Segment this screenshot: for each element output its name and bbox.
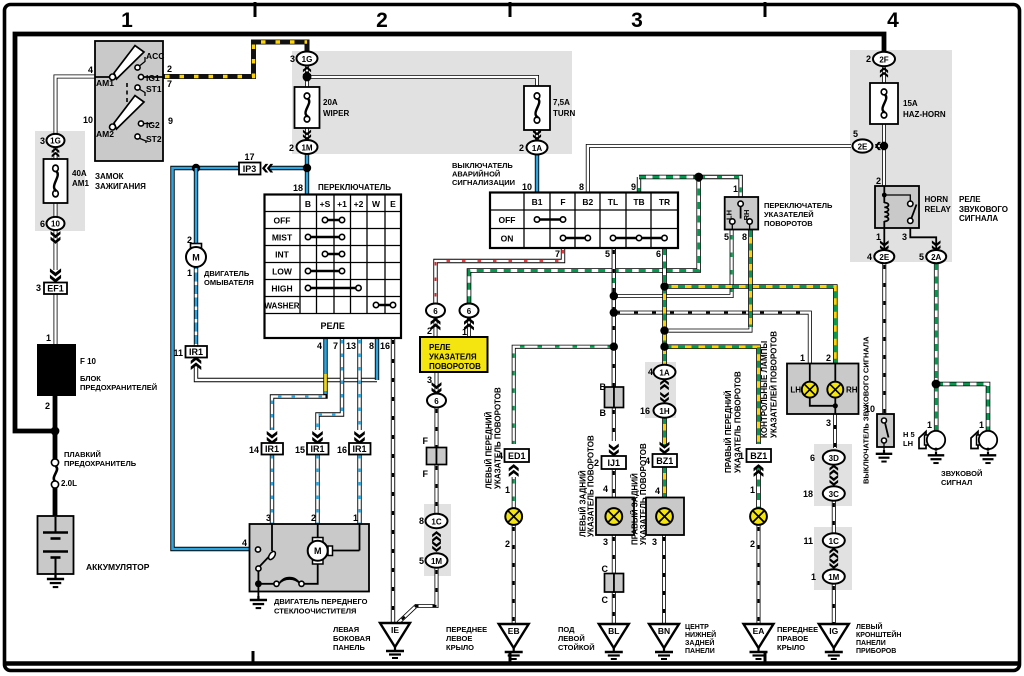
wire: flasher output rail green/white: across top, down and to flasher pin1 (639, 175, 699, 180)
connector 2F (873, 52, 895, 66)
svg-text:ЗВУКОВОЙ: ЗВУКОВОЙ (941, 469, 982, 478)
horn switch box (877, 414, 894, 447)
wire: rail to turn switch pin1 (699, 177, 741, 198)
svg-text:ЛЕВОЕ: ЛЕВОЕ (446, 634, 472, 643)
connector 3(1G) at AM1 fuse (47, 134, 65, 147)
svg-text:4: 4 (88, 65, 93, 75)
node: 1G junction (303, 73, 312, 82)
svg-text:ЗАЖИГАНИЯ: ЗАЖИГАНИЯ (95, 182, 146, 191)
node: washer branch junction (192, 164, 200, 172)
svg-text:4: 4 (603, 484, 608, 494)
flasher relay (yellow) (420, 337, 488, 372)
connector 6 ovals above flasher (426, 304, 445, 318)
svg-text:BZ1: BZ1 (750, 451, 767, 461)
svg-text:ЗАДНЕЙ: ЗАДНЕЙ (685, 638, 714, 647)
svg-text:2: 2 (167, 64, 172, 74)
connector 5(2E) horizontal (853, 139, 873, 152)
wire: TL branch to cluster pin 1, white w/ black dashes (614, 313, 810, 364)
svg-text:RH: RH (742, 210, 751, 221)
connector 6(3D) (823, 450, 845, 464)
svg-text:3: 3 (36, 283, 41, 293)
connector 11(1C) (823, 533, 845, 547)
wire: pin 8 upper blue (375, 338, 379, 380)
wire: RH branch to turn switch pin 8 (665, 325, 751, 331)
svg-text:ПРЕДОХРАНИТЕЛЬ: ПРЕДОХРАНИТЕЛЬ (64, 459, 137, 468)
svg-text:AM1: AM1 (96, 78, 114, 88)
wire: ignition AM1 pin4 to 1G fuse (56, 77, 96, 137)
svg-text:+1: +1 (337, 199, 347, 209)
svg-text:EF1: EF1 (47, 284, 64, 294)
svg-text:2: 2 (427, 326, 432, 336)
svg-text:IR1: IR1 (265, 444, 279, 454)
svg-text:1: 1 (353, 513, 358, 523)
svg-text:10: 10 (51, 220, 60, 229)
svg-text:IG2: IG2 (146, 120, 160, 130)
connector B-B (605, 387, 615, 408)
connector 16(1H) (654, 403, 676, 417)
svg-text:WIPER: WIPER (323, 109, 349, 118)
svg-text:4: 4 (648, 367, 653, 377)
svg-text:ПОД: ПОД (558, 625, 575, 634)
svg-text:7,5A: 7,5A (553, 98, 570, 107)
svg-text:3: 3 (427, 375, 432, 385)
svg-text:M: M (314, 546, 322, 556)
svg-text:ACC: ACC (146, 51, 164, 61)
svg-text:1: 1 (187, 268, 192, 278)
svg-text:2: 2 (289, 143, 294, 153)
svg-text:B: B (600, 408, 607, 418)
wire: 1G oval to 40A fuse / fuse to 6(10) (54, 146, 58, 345)
svg-text:8: 8 (579, 182, 584, 192)
svg-text:IJ1: IJ1 (608, 458, 621, 468)
svg-text:20A: 20A (323, 98, 338, 107)
svg-text:УКАЗАТЕЛЬ ПОВОРОТОВ: УКАЗАТЕЛЬ ПОВОРОТОВ (494, 387, 503, 489)
wire: 15 IR1 to wiper motor pin 2 (315, 453, 319, 525)
fuse 15A HAZ-HORN (870, 83, 898, 124)
node: flasher rail junction (694, 173, 703, 182)
connector 5(1M) left chain (426, 553, 448, 567)
svg-text:ПРАВЫЙ ПЕРЕДНИЙ: ПРАВЫЙ ПЕРЕДНИЙ (724, 390, 733, 473)
wire: 6(10) to EF1 to F10 (54, 229, 58, 270)
svg-text:1M: 1M (828, 573, 839, 582)
connector 3 EF1 (50, 268, 61, 282)
wire: 5(1M) to IE ground diagonal (398, 568, 437, 623)
svg-text:10: 10 (522, 182, 532, 192)
svg-text:16: 16 (640, 406, 650, 416)
svg-text:СИГНАЛИЗАЦИИ: СИГНАЛИЗАЦИИ (452, 178, 515, 187)
svg-text:6: 6 (810, 453, 815, 463)
connector F-F (427, 448, 437, 465)
svg-text:TURN: TURN (553, 109, 575, 118)
svg-text:W: W (372, 199, 381, 209)
wire: horn relay pin3 to 5(2A) (910, 224, 936, 251)
svg-text:БОКОВАЯ: БОКОВАЯ (333, 634, 371, 643)
svg-text:ЛЕВОЙ: ЛЕВОЙ (558, 634, 585, 643)
lamp: left front turn signal (505, 508, 522, 525)
svg-text:1: 1 (811, 572, 816, 582)
svg-text:ЦЕНТР: ЦЕНТР (685, 624, 709, 631)
wire: wiper fuse to 2(1M) (305, 128, 309, 142)
connector 1 BZ1 (747, 449, 772, 462)
connector 15 IR1 (312, 431, 323, 445)
wire: 14 IR1 to wiper motor pin 3 (270, 453, 274, 525)
nodes on TR (660, 282, 668, 290)
horn RH (971, 431, 997, 451)
svg-text:+S: +S (320, 199, 331, 209)
ground BN (649, 624, 679, 659)
node: horn branch (932, 380, 941, 389)
svg-text:9: 9 (168, 116, 173, 126)
wire: pin 7 (+1) to 15 IR1 (318, 338, 343, 430)
svg-text:IG: IG (829, 626, 838, 636)
svg-text:LH: LH (725, 210, 734, 220)
wire: 16 IR1 to wiper motor pin 1 (357, 453, 361, 525)
svg-text:СТЕКЛООЧИСТИТЕЛЯ: СТЕКЛООЧИСТИТЕЛЯ (274, 607, 356, 616)
ground EB (499, 624, 529, 659)
panel: connector 3D/3C band (814, 444, 852, 506)
svg-text:2: 2 (519, 143, 524, 153)
svg-text:СИГНАЛА: СИГНАЛА (959, 214, 998, 223)
wire: F10 to junction (53, 396, 58, 433)
connector 2(1M) under wiper fuse (303, 130, 311, 141)
wire: flasher pins to relay box (436, 317, 470, 338)
svg-text:OFF: OFF (499, 215, 516, 225)
svg-text:ОМЫВАТЕЛЯ: ОМЫВАТЕЛЯ (204, 278, 254, 287)
svg-text:8: 8 (742, 232, 747, 242)
svg-text:ЗВУКОВОГО: ЗВУКОВОГО (959, 205, 1008, 214)
wire: IP3 branch blue to washer and wiper motor (173, 168, 308, 549)
svg-text:2: 2 (866, 54, 871, 64)
wire: turn switch pin8 down, green/yellow (748, 230, 753, 327)
svg-text:10: 10 (83, 115, 93, 125)
svg-text:НИЖНЕЙ: НИЖНЕЙ (685, 630, 716, 639)
svg-text:ST2: ST2 (146, 134, 162, 144)
svg-text:1: 1 (979, 420, 984, 430)
svg-text:18: 18 (803, 489, 813, 499)
wire: washer motor to 11 IR1, blue w/ white dashes (194, 267, 198, 346)
ground EA (744, 624, 774, 659)
wire: 2E chevrons to junction on fuse wire (875, 144, 884, 148)
svg-text:15: 15 (295, 445, 305, 455)
svg-text:3: 3 (902, 232, 907, 242)
svg-text:18: 18 (293, 183, 303, 193)
svg-text:ПАНЕЛИ: ПАНЕЛИ (856, 640, 886, 647)
wire: TL branch to turn switch pin 5 (614, 230, 732, 296)
connector C-C (605, 574, 615, 593)
nodes on TL (610, 292, 618, 300)
svg-text:7: 7 (555, 249, 560, 259)
fusible link (51, 459, 58, 466)
svg-text:F: F (560, 197, 565, 207)
ground: battery (47, 575, 64, 587)
svg-text:7: 7 (167, 79, 172, 89)
svg-text:HORN: HORN (925, 195, 949, 204)
svg-text:H 5: H 5 (903, 430, 915, 439)
svg-text:ЗАМОК: ЗАМОК (95, 172, 124, 181)
svg-text:HAZ-HORN: HAZ-HORN (903, 110, 946, 119)
wire: 2(1M) to switch B pin18, blue (305, 152, 309, 195)
connector 3(1G) top of wiper fuse (297, 52, 318, 66)
svg-text:2: 2 (876, 176, 881, 186)
svg-text:EA: EA (753, 626, 765, 636)
svg-text:УКАЗАТЕЛЕЙ: УКАЗАТЕЛЕЙ (764, 210, 814, 219)
panel: ignition 40A AM1 fuse area (35, 131, 85, 231)
svg-text:КРОНШТЕЙН: КРОНШТЕЙН (856, 630, 901, 639)
cluster indicator lamps box (787, 364, 859, 415)
labels: wiper switch table pin 18, header, rows, РЕЛЕ, pins 4 7 13 8 16, IR1 pins 14 15 16 (265, 195, 402, 339)
svg-text:1G: 1G (302, 55, 313, 64)
wire: hazard TB pin9 up to flasher output rail (637, 177, 641, 193)
svg-text:4: 4 (317, 341, 322, 351)
svg-text:IR1: IR1 (352, 444, 366, 454)
svg-text:2E: 2E (858, 142, 868, 151)
svg-text:B2: B2 (582, 197, 593, 207)
svg-text:16: 16 (337, 445, 347, 455)
fuse block F10 (black box) (37, 344, 76, 396)
wire: 4(2E) to horn switch, white w/ black dashes (882, 263, 886, 414)
svg-text:2A: 2A (931, 253, 941, 262)
svg-text:1M: 1M (431, 557, 442, 566)
svg-text:C: C (602, 595, 609, 605)
svg-text:СИГНАЛ: СИГНАЛ (941, 478, 972, 487)
svg-text:ПОВОРОТОВ: ПОВОРОТОВ (764, 219, 813, 228)
ground: horn switch (876, 450, 893, 462)
svg-text:TL: TL (608, 197, 618, 207)
left rear lamp box (596, 498, 634, 536)
svg-text:IR1: IR1 (310, 444, 324, 454)
svg-text:14: 14 (249, 445, 259, 455)
svg-text:6: 6 (434, 397, 439, 406)
wire: 1M to IG ground (832, 584, 836, 625)
wire: cluster pin3 to 6(3D) (833, 414, 837, 448)
connector 17 IP3 (239, 163, 261, 175)
svg-text:F 10: F 10 (80, 357, 97, 366)
svg-text:1: 1 (121, 9, 133, 32)
wire: junction down to washer motor (194, 168, 198, 245)
svg-text:ПЕРЕКЛЮЧАТЕЛЬ: ПЕРЕКЛЮЧАТЕЛЬ (764, 201, 833, 210)
svg-text:2: 2 (750, 539, 755, 549)
wire: flasher pin3 to 6 oval to F-F to 1C/1M chain, white w/ black dashes (435, 372, 439, 514)
svg-text:УКАЗАТЕЛЯ: УКАЗАТЕЛЯ (429, 353, 477, 362)
svg-text:16: 16 (380, 341, 390, 351)
connector 4 ED1 (505, 449, 530, 462)
labels: washer motor pins 2/1, name, IR1 pin 11 (186, 244, 206, 268)
svg-text:ПЛАВКИЙ: ПЛАВКИЙ (64, 450, 101, 459)
svg-text:M: M (192, 253, 200, 263)
svg-text:E: E (390, 199, 396, 209)
svg-text:1: 1 (876, 232, 881, 242)
connector 2(1A) under turn fuse (533, 130, 541, 141)
svg-text:КРЫЛО: КРЫЛО (777, 643, 805, 652)
connector 11 IR1 (186, 346, 208, 358)
svg-text:1A: 1A (532, 144, 542, 153)
svg-text:RELAY: RELAY (925, 205, 952, 214)
connector 1(1M) (823, 569, 845, 583)
fuse 40A AM1 (44, 159, 68, 203)
svg-text:РЕЛЕ: РЕЛЕ (959, 195, 981, 204)
svg-text:1G: 1G (50, 137, 61, 146)
svg-text:4: 4 (887, 9, 899, 32)
connector 4(2E) under relay (880, 240, 889, 251)
svg-text:АККУМУЛЯТОР: АККУМУЛЯТОР (86, 562, 150, 572)
svg-text:6: 6 (40, 219, 45, 229)
svg-text:1: 1 (462, 327, 467, 337)
svg-text:8: 8 (419, 516, 424, 526)
svg-text:3: 3 (826, 418, 831, 428)
wiper motor box (250, 524, 370, 592)
svg-text:1: 1 (750, 485, 755, 495)
wire: horn relay pin1 to 4(2E) (883, 228, 885, 250)
svg-text:AM2: AM2 (96, 129, 114, 139)
svg-text:BZ1: BZ1 (656, 456, 673, 466)
panel: junction block wiper/turn fuses (292, 51, 572, 154)
svg-text:11: 11 (803, 536, 813, 546)
svg-text:1M: 1M (301, 143, 312, 152)
wire: pin 13 (+2) to 16 IR1 (357, 338, 361, 430)
wire: washer line 11 IR1 to pin 8 (W) (196, 367, 377, 380)
svg-text:OFF: OFF (274, 216, 291, 226)
ground IE (380, 623, 410, 658)
svg-text:2.0L: 2.0L (61, 479, 77, 488)
svg-text:2: 2 (505, 539, 510, 549)
svg-text:КОНТРОЛЬНЫЕ ЛАМПЫ: КОНТРОЛЬНЫЕ ЛАМПЫ (760, 341, 769, 438)
wire: right front lamp to EA ground (757, 525, 761, 625)
wire: 3C to 1C (832, 501, 836, 534)
svg-text:BN: BN (658, 626, 670, 636)
svg-text:3: 3 (631, 9, 643, 32)
svg-text:УКАЗАТЕЛЬ ПОВОРОТОВ: УКАЗАТЕЛЬ ПОВОРОТОВ (587, 435, 596, 537)
svg-text:РЕЛЕ: РЕЛЕ (429, 343, 451, 352)
svg-text:ДВИГАТЕЛЬ: ДВИГАТЕЛЬ (204, 269, 250, 278)
svg-text:2F: 2F (879, 55, 888, 64)
svg-text:1C: 1C (829, 537, 839, 546)
right rear lamp box (646, 498, 684, 536)
svg-text:ПРЕДОХРАНИТЕЛЕЙ: ПРЕДОХРАНИТЕЛЕЙ (80, 383, 157, 392)
svg-text:F: F (423, 469, 429, 479)
connector 5(2A) (932, 240, 941, 251)
battery (38, 516, 74, 574)
wire: turn fuse to 2(1A) (535, 130, 539, 143)
svg-text:15A: 15A (903, 99, 918, 108)
svg-text:4: 4 (655, 486, 660, 496)
svg-text:EB: EB (508, 626, 520, 636)
svg-text:1H: 1H (659, 407, 669, 416)
wire: TL chain: B-B to 2 IJ1 to left rear lamp to C-C to BL (612, 408, 616, 441)
connector 4(1A) right chain (654, 365, 676, 379)
horn relay box (875, 186, 919, 228)
svg-text:8: 8 (369, 341, 374, 351)
svg-text:+2: +2 (354, 199, 364, 209)
svg-text:RH: RH (846, 386, 858, 395)
svg-text:ON: ON (501, 234, 514, 244)
wire: right rear lamp to BN ground (662, 535, 666, 625)
svg-text:IG1: IG1 (146, 73, 160, 83)
svg-text:СТОЙКОЙ: СТОЙКОЙ (558, 643, 595, 652)
wire: pin 4 (+S) to 14 IR1, blue/yellow corner (272, 338, 326, 430)
svg-text:17: 17 (244, 152, 254, 162)
svg-text:3: 3 (652, 537, 657, 547)
svg-text:BL: BL (608, 626, 619, 636)
panel: connector 1C/1M band (right chain) (814, 527, 852, 590)
wire: flasher feed: hazard F pin7 to flasher pin2, white w/ red dashes (436, 248, 564, 304)
svg-text:УКАЗАТЕЛЬ ПОВОРОТОВ: УКАЗАТЕЛЬ ПОВОРОТОВ (639, 443, 648, 545)
node: 1M blue junction (303, 164, 311, 172)
connector 8(1C) left chain (426, 514, 448, 528)
svg-text:2: 2 (376, 9, 388, 32)
svg-text:IR1: IR1 (189, 347, 203, 357)
turn signal switch box (725, 197, 759, 230)
connector 6(10) (47, 217, 65, 230)
panel: connector 8-1C/5-1M band (left chain) (424, 504, 451, 576)
svg-text:LH: LH (790, 386, 801, 395)
svg-text:ЛЕВЫЙ: ЛЕВЫЙ (856, 622, 883, 631)
wire: RH node down to 4(1A), green/yellow (662, 287, 667, 367)
svg-text:6: 6 (467, 307, 472, 316)
svg-text:1: 1 (46, 333, 51, 343)
svg-text:РЕЛЕ: РЕЛЕ (321, 321, 345, 331)
svg-text:TB: TB (633, 197, 644, 207)
connector 6 oval under flasher (432, 382, 442, 395)
svg-text:B: B (305, 199, 311, 209)
connector 16 IR1 (354, 431, 365, 445)
svg-text:1: 1 (800, 353, 805, 363)
svg-text:5: 5 (853, 129, 858, 139)
wire: RH branch to cluster pin 2, green/yellow (665, 287, 836, 365)
svg-text:1A: 1A (659, 368, 669, 377)
svg-text:F: F (423, 436, 429, 446)
wire: junction to fusible link to battery (53, 431, 58, 460)
wire: 2(1A) to hazard B1 pin10, blue (535, 154, 539, 193)
svg-text:ПАНЕЛИ: ПАНЕЛИ (685, 648, 715, 655)
svg-text:LH: LH (903, 439, 913, 448)
svg-text:C: C (602, 564, 609, 574)
wire: 1G node to wiper fuse and across to turn fuse (307, 64, 537, 88)
svg-text:ПРАВОЕ: ПРАВОЕ (777, 634, 808, 643)
wire: hazard TL pin5 down (net TL), white w/ black dashes (612, 248, 616, 388)
svg-text:3: 3 (266, 513, 271, 523)
svg-text:MIST: MIST (272, 233, 293, 243)
svg-text:11: 11 (173, 348, 183, 358)
wire: 1 BZ1 to right front lamp, green/white (756, 466, 761, 509)
svg-text:TR: TR (659, 197, 670, 207)
svg-text:IP3: IP3 (243, 164, 257, 174)
svg-text:3: 3 (40, 136, 45, 146)
svg-text:6: 6 (656, 249, 661, 259)
wire: ED1 to left front lamp to EB ground (512, 477, 516, 509)
ground IG (819, 624, 849, 659)
panel: haz-horn relay area (850, 50, 952, 262)
svg-text:4: 4 (867, 252, 872, 262)
wire: RH branch to right front lamp BZ1, green/yellow (665, 347, 759, 444)
svg-text:2: 2 (187, 235, 192, 245)
svg-text:3C: 3C (829, 490, 839, 499)
svg-text:1C: 1C (431, 517, 441, 526)
svg-text:2: 2 (826, 353, 831, 363)
ground BL (599, 624, 629, 659)
svg-text:2E: 2E (879, 253, 889, 262)
svg-text:2: 2 (311, 513, 316, 523)
svg-text:УКАЗАТЕЛЕЙ ПОВОРОТОВ: УКАЗАТЕЛЕЙ ПОВОРОТОВ (770, 331, 779, 438)
svg-text:5: 5 (724, 232, 729, 242)
svg-text:AM1: AM1 (72, 179, 89, 188)
node: battery junction (51, 427, 60, 436)
svg-text:9: 9 (631, 182, 636, 192)
lamp: right front turn signal (750, 508, 767, 525)
svg-text:УКАЗАТЕЛЬ ПОВОРОТОВ: УКАЗАТЕЛЬ ПОВОРОТОВ (734, 371, 743, 473)
svg-text:ДВИГАТЕЛЬ ПЕРЕДНЕГО: ДВИГАТЕЛЬ ПЕРЕДНЕГО (274, 597, 368, 606)
svg-text:WASHER: WASHER (264, 302, 299, 311)
svg-text:ПРИБОРОВ: ПРИБОРОВ (856, 648, 896, 655)
